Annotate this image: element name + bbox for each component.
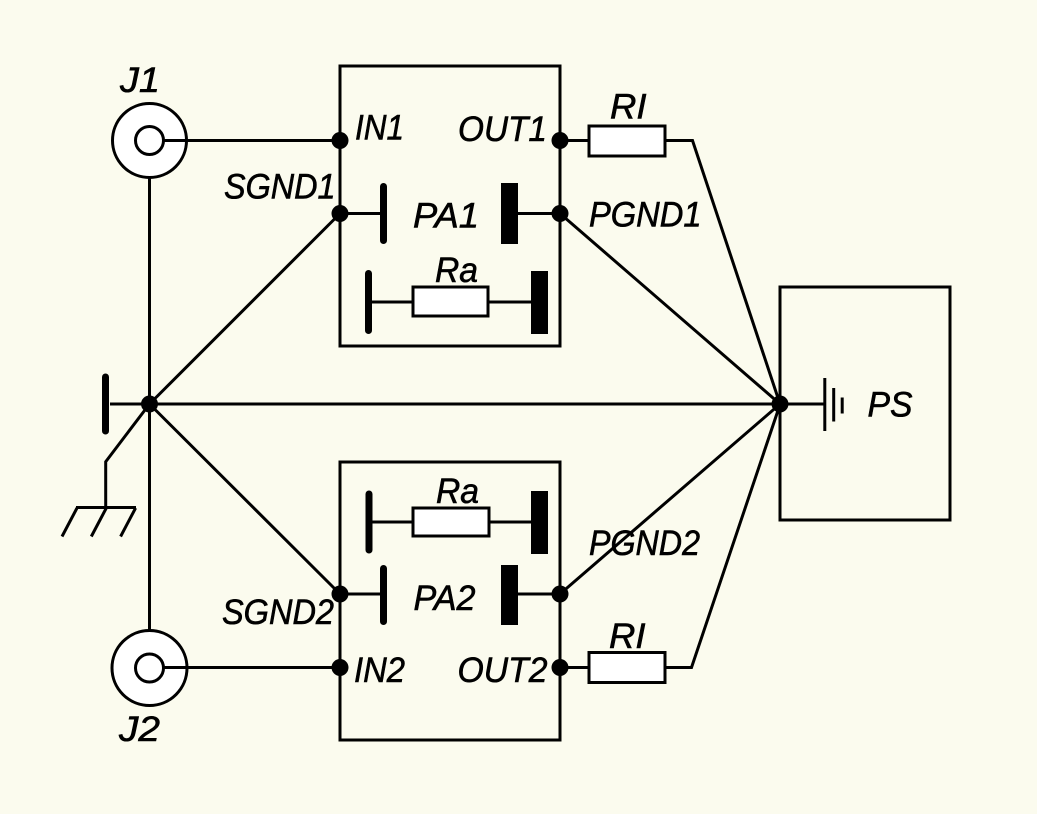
svg-text:RI: RI [610,88,647,127]
node PGND1 [552,205,569,222]
svg-text:Ra: Ra [435,251,478,290]
node star left [141,396,158,413]
amplifier PA2 box [340,462,560,740]
wire star to SGND2 [150,404,341,594]
wire PGND2 to star right [560,404,780,594]
signal plate of resistor Ra (PA2) [366,494,373,550]
node star right [772,396,789,413]
wire star right to PS ground [780,403,825,406]
wire PGND1 to star right [560,214,780,405]
node PGND2 [552,586,569,603]
wire SGND1 to signal ground plate [340,212,380,215]
connector J2 [112,631,187,706]
svg-text:J2: J2 [118,710,160,749]
svg-text:PA1: PA1 [413,197,479,236]
svg-text:OUT1: OUT1 [458,110,547,149]
power ground plate PA1 [501,183,518,244]
svg-text:PGND1: PGND1 [589,196,702,235]
power plate of resistor Ra (PA2) [531,491,548,554]
resistor RI (top) [589,126,665,156]
wire star to SGND1 [150,214,341,405]
wire Ra to power plate (PA2) [489,521,531,524]
svg-text:PS: PS [868,386,913,425]
wire plate to Ra [369,301,414,304]
svg-text:IN2: IN2 [354,651,405,690]
chassis plate at left star [102,377,109,431]
power ground plate PA2 [501,565,518,625]
svg-text:PA2: PA2 [414,579,476,618]
wire RI (bottom) to star right [665,405,780,668]
wire RI to star right [665,141,780,405]
svg-text:PGND2: PGND2 [589,524,700,563]
resistor RI (bottom) [589,653,665,683]
wire power plate to PGND2 [518,593,560,596]
wire Ra to power plate [488,301,531,304]
wire J2 to IN2 [163,666,340,669]
wire OUT2 to RI (bottom) [560,666,589,669]
signal plate of resistor Ra (PA1) [365,274,372,331]
resistor Ra (PA1) [413,287,488,316]
node OUT2 [552,659,569,676]
wire J1 to IN1 [163,139,340,142]
power supply PS box [780,287,950,520]
svg-text:OUT2: OUT2 [458,651,548,690]
svg-text:SGND2: SGND2 [222,593,334,632]
wire plate to Ra (PA2) [369,521,413,524]
amplifier PA1 box [340,66,560,346]
resistor Ra (PA2) [413,508,489,536]
wire ground bus star-left to star-right [110,403,780,406]
wire vertical bus J1 to star to J2 [148,177,151,631]
svg-text:J1: J1 [119,61,160,100]
node SGND2 [332,586,349,603]
PS ground symbol [825,378,842,431]
signal ground plate PA1 [380,187,387,241]
earth ground symbol [62,508,136,537]
wire star to earth ground [106,404,150,507]
connector J1 [113,104,187,178]
node IN2 [332,659,349,676]
svg-text:SGND1: SGND1 [224,168,336,207]
svg-text:Ra: Ra [436,472,479,511]
signal ground plate PA2 [380,569,387,622]
wire SGND2 to signal plate [340,593,380,596]
node IN1 [332,132,349,149]
svg-text:IN1: IN1 [355,109,404,148]
node SGND1 [332,205,349,222]
power plate of resistor Ra (PA1) [531,271,548,334]
node OUT1 [552,132,569,149]
svg-text:RI: RI [609,617,646,656]
wire OUT1 to RI [560,139,589,142]
wire power plate to PGND1 [518,212,560,215]
